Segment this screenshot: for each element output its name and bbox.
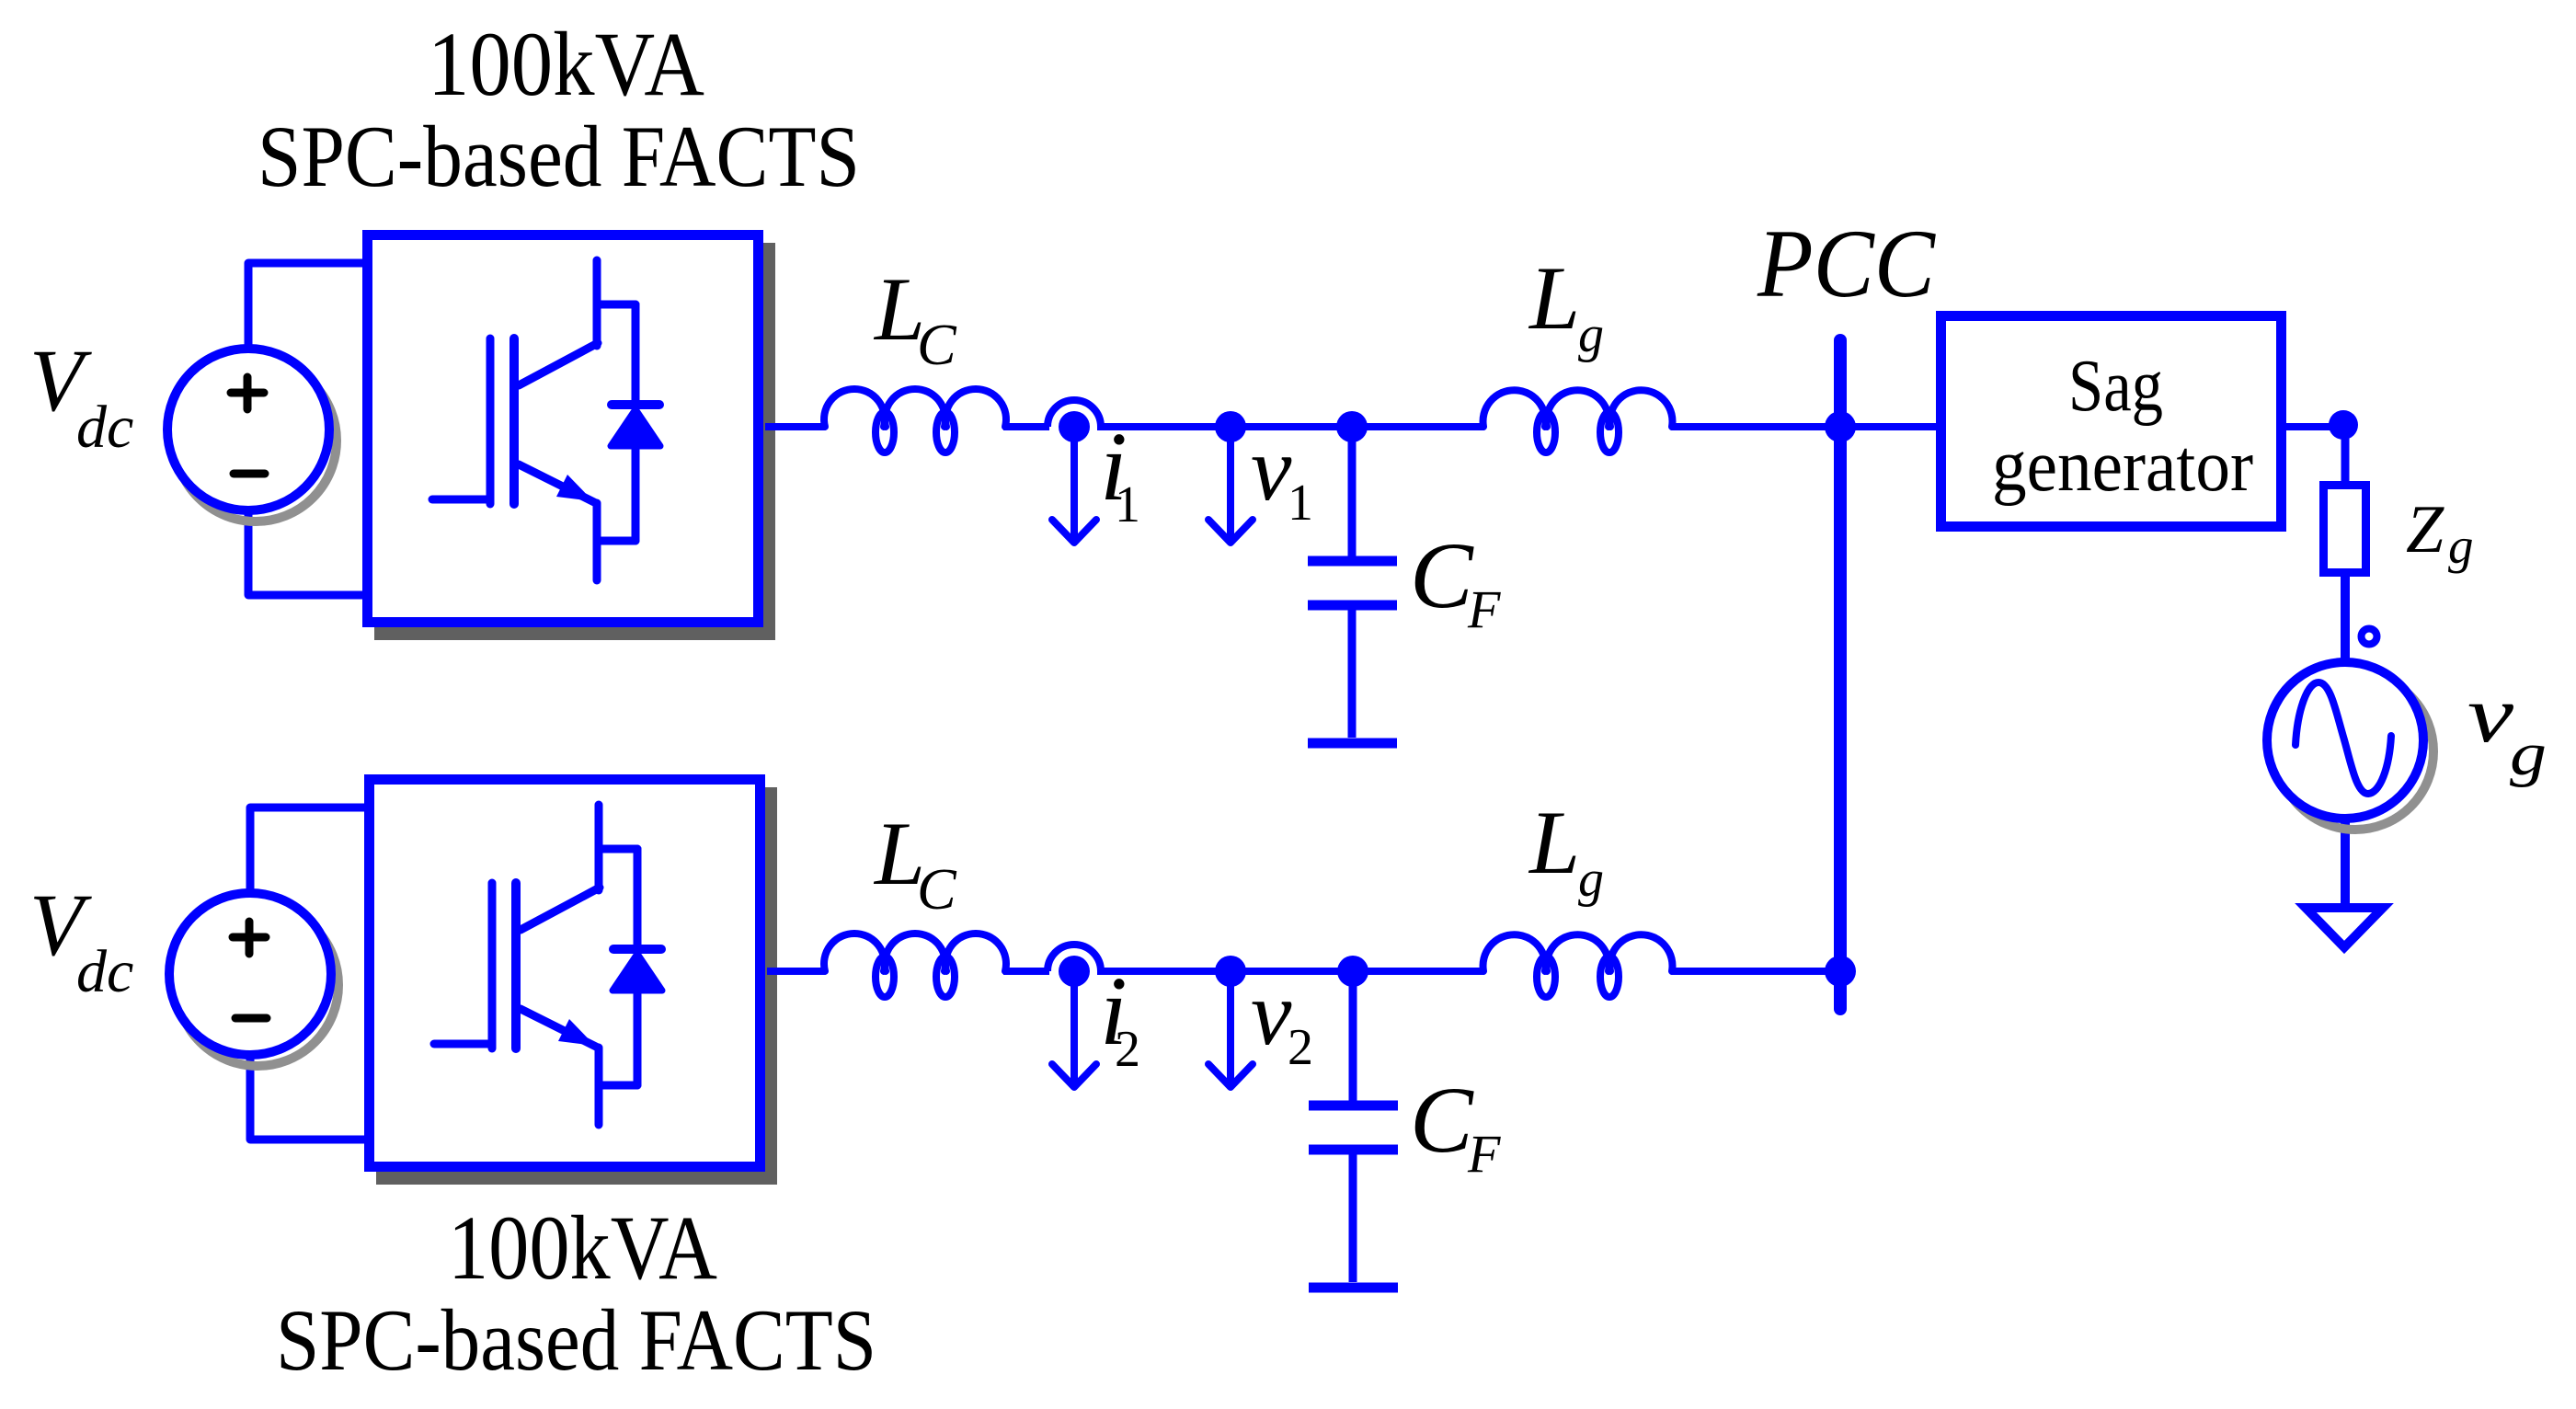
converter box U2 shadow [376,787,777,1185]
wire v1 to cap node [1231,423,1352,430]
svg-text:g: g [2448,518,2474,574]
svg-text:C: C [917,312,957,377]
svg-text:v: v [1251,418,1292,520]
diode cathode bar [612,400,659,409]
gate lead [432,496,490,504]
svg-text:SPC-based FACTS: SPC-based FACTS [258,108,860,205]
wire vg to ground [2341,819,2350,904]
svg-text:100kVA: 100kVA [448,1197,717,1299]
svg-text:g: g [1578,851,1604,908]
emitter jog from diode [599,1082,637,1090]
phase marker dot [2362,629,2377,645]
body bar [511,883,521,1048]
IGBT Q2 [434,805,662,1125]
node dot PCC bottom [1825,956,1856,987]
wire cap node to Lg [1352,423,1483,430]
svg-text:Sag: Sag [2068,344,2163,427]
collector diagonal [521,888,600,930]
collector lead [595,805,603,890]
wire v2 to cap node [1231,968,1352,975]
emitter lead [595,1048,603,1125]
diode branch lower [634,994,642,1085]
svg-text:SPC-based FACTS: SPC-based FACTS [276,1291,876,1389]
emitter arrowhead [558,1019,595,1046]
svg-text:2: 2 [1288,1019,1313,1076]
converter box U1 shadow [374,243,775,640]
minus sign [234,470,265,478]
plus sign [233,922,266,954]
diode branch upper [634,849,642,945]
svg-text:C: C [1410,523,1474,628]
bottom rail [767,934,1840,997]
sine wave [2296,682,2391,794]
resistor Zg [2324,486,2366,573]
wire cap node to Lg [1352,968,1483,975]
current probe arc i1 [1048,400,1101,427]
svg-text:g: g [1578,306,1604,363]
node dot v1 [1215,411,1246,442]
collector jog to diode [597,301,635,309]
svg-text:v: v [2467,670,2514,760]
inductor Lc2 [824,934,885,971]
svg-text:g: g [2510,720,2547,788]
wire probe to v2 [1097,968,1231,975]
node dot i1 [1059,411,1090,442]
svg-text:generator: generator [1992,424,2253,507]
emitter diagonal [519,464,596,503]
svg-text:100kVA: 100kVA [428,13,704,115]
gate lead [434,1040,492,1048]
capacitor CF2 [1309,971,1398,1288]
svg-text:F: F [1467,1124,1501,1184]
emitter diagonal [521,1009,598,1048]
diode D2 triangle [613,954,662,991]
plus sign [231,377,264,409]
ac source vg shadow [2277,673,2433,830]
wire PCC to sag box [1840,423,1937,430]
svg-text:v: v [1251,962,1292,1064]
svg-text:Z: Z [2406,492,2444,567]
diode branch upper [632,304,640,401]
inductor Lg1 [1483,390,1546,427]
dc source V1 shadow [175,360,337,521]
wire Lg to PCC [1672,423,1840,430]
wire Lg to PCC [1672,968,1840,975]
dc source V1 circle [167,349,329,510]
svg-text:2: 2 [1115,1021,1140,1078]
inductor Lg2 [1483,934,1546,971]
wire Lc to probe [1003,968,1049,975]
diode cathode bar [613,945,661,954]
converter unit 2 [169,780,777,1186]
gate bar [488,883,497,1048]
converter unit 1 [167,235,775,641]
converter box U2 [370,780,761,1167]
node dot Zg [2329,410,2358,440]
body bar [509,338,519,504]
emitter arrowhead [556,475,593,501]
emitter jog from diode [597,537,635,545]
svg-text:1: 1 [1115,476,1140,533]
wire probe to v1 [1097,423,1231,430]
dc source V2 shadow [177,904,338,1066]
diode D1 triangle [611,409,660,446]
svg-text:PCC: PCC [1757,210,1936,317]
capacitor CF1 [1308,427,1397,743]
collector jog to diode [599,845,637,853]
inductor Lc1 [824,389,885,427]
arrow v1 [1208,427,1253,543]
gate bar [487,338,495,504]
wire sag box to Zg node [2286,423,2343,430]
node dot CF2 [1337,956,1368,987]
svg-text:F: F [1467,579,1501,639]
converter box U1 [368,235,759,623]
svg-text:1: 1 [1288,475,1313,532]
emitter lead [593,503,601,580]
arrow i1 [1052,427,1096,543]
wire node to Zg [2341,425,2350,485]
wire box to Lc [767,968,825,975]
wire dc- bottom [250,1055,365,1140]
wire dc+ top [250,808,365,894]
minus sign [235,1014,267,1023]
dc source V2 circle [169,893,331,1055]
collector diagonal [519,343,598,385]
current probe arc i2 [1048,945,1101,971]
svg-text:L: L [1528,793,1580,893]
wire box to Lc [765,423,825,430]
svg-text:dc: dc [76,938,133,1005]
node dot CF1 [1336,411,1368,442]
wire dc+ top [248,263,363,349]
svg-text:L: L [1528,248,1580,349]
node dot v2 [1215,956,1246,987]
sag generator box [1941,316,2282,527]
svg-text:C: C [917,856,957,922]
node dot i2 [1059,956,1090,987]
top rail [765,389,1937,452]
PCC bus bar [1834,340,1847,1009]
node dot PCC top [1825,411,1856,442]
IGBT Q1 [432,260,660,580]
wire Zg to vg [2341,572,2350,662]
arrow i2 [1052,971,1096,1087]
svg-text:C: C [1410,1068,1474,1173]
collector lead [593,260,601,346]
svg-text:dc: dc [76,394,133,461]
diode branch lower [632,450,640,541]
ground symbol [2306,908,2383,947]
ac source vg circle [2267,662,2423,819]
wire Lc to probe [1003,423,1049,430]
wire dc- bottom [248,510,363,595]
arrow v2 [1208,971,1253,1087]
